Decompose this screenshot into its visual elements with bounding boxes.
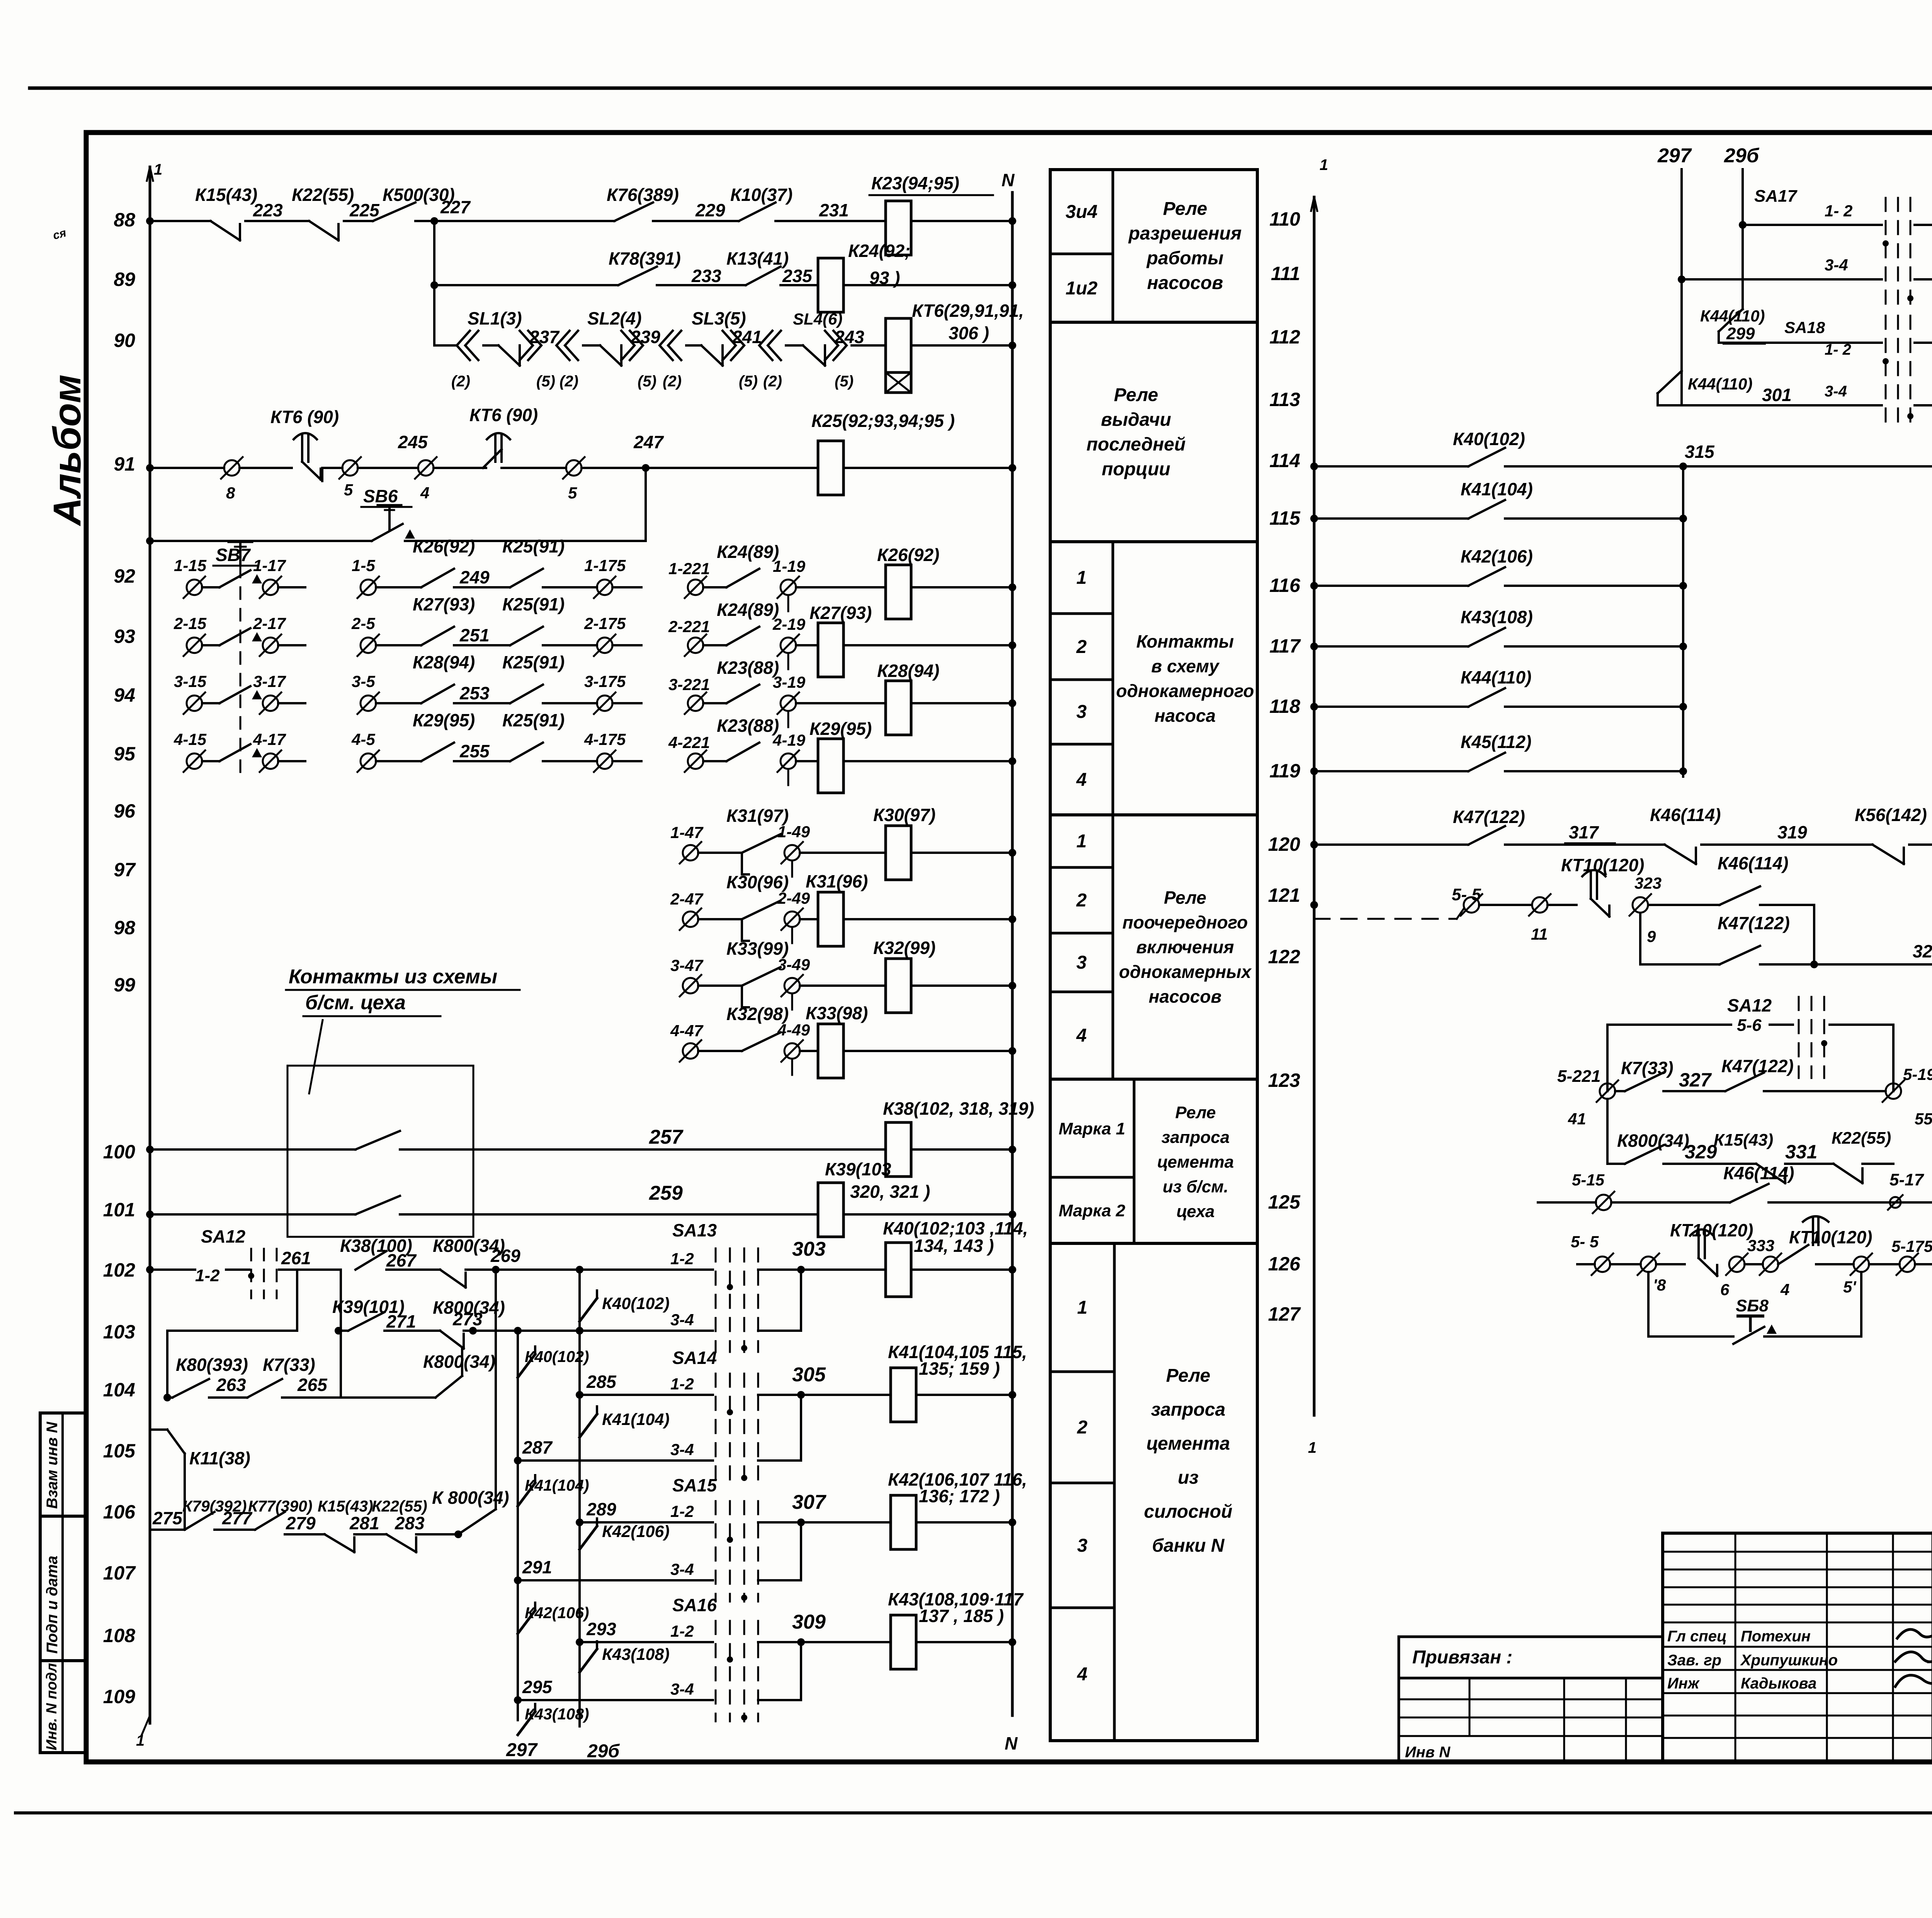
svg-text:последней: последней xyxy=(1087,434,1186,455)
svg-text:Гл спец: Гл спец xyxy=(1667,1628,1727,1645)
node row104 start xyxy=(163,1394,171,1401)
wire К41(104) b xyxy=(1505,517,1683,520)
contact К30(96) xyxy=(742,901,781,919)
svg-text:1: 1 xyxy=(1077,568,1087,588)
terminal 2-47 xyxy=(680,908,701,930)
svg-text:К77(390): К77(390) xyxy=(248,1497,313,1515)
wire row103 b xyxy=(384,1330,440,1332)
node 309 xyxy=(797,1638,805,1646)
wire 5-6 a xyxy=(1607,1024,1731,1026)
switch SA17 dashed xyxy=(1883,198,1913,309)
svg-text:1и2: 1и2 xyxy=(1066,278,1098,299)
svg-text:88: 88 xyxy=(114,209,135,231)
svg-text:К27(93): К27(93) xyxy=(413,594,475,614)
svg-text:К40(102): К40(102) xyxy=(525,1348,589,1365)
wire SА14 1-2 d xyxy=(916,1394,1012,1396)
contact К43(108) on vertical B xyxy=(518,1712,535,1735)
svg-text:КТ10(120): КТ10(120) xyxy=(1561,855,1645,875)
wire row123b d xyxy=(1862,1163,1893,1165)
wire r94 b xyxy=(278,702,305,704)
svg-text:135; 159 ): 135; 159 ) xyxy=(919,1359,1000,1379)
svg-text:3-47: 3-47 xyxy=(670,956,704,974)
contact К25(91) xyxy=(510,685,543,703)
wire row102 a xyxy=(150,1268,195,1271)
svg-text:3-4: 3-4 xyxy=(670,1440,694,1459)
annotation box: Kontakty v shemu odnokamernogo nasosa xyxy=(1050,542,1257,815)
contact К33(99) xyxy=(742,967,781,986)
wire r93 b xyxy=(278,644,305,646)
terminal 5-19 xyxy=(1883,1080,1904,1102)
svg-text:122: 122 xyxy=(1268,946,1301,968)
contact К31(97) tail xyxy=(741,853,743,874)
svg-text:2: 2 xyxy=(1076,637,1087,657)
SB8 loop bottom a xyxy=(1648,1335,1733,1338)
contact К41(104) xyxy=(1468,500,1505,519)
node row101 rail xyxy=(146,1211,154,1218)
SB8 loop right xyxy=(1860,1272,1862,1336)
wire row89 a xyxy=(434,284,618,286)
node row106 end xyxy=(454,1530,462,1538)
terminal 3-15 xyxy=(184,692,205,714)
switch SA12 right dashed xyxy=(1799,997,1827,1078)
svg-text:121: 121 xyxy=(1268,884,1300,906)
svg-text:4: 4 xyxy=(1076,1025,1087,1046)
svg-text:SА15: SА15 xyxy=(672,1475,717,1495)
privyazan table xyxy=(1399,1678,1663,1762)
svg-text:цемента: цемента xyxy=(1146,1433,1230,1454)
svg-text:90: 90 xyxy=(114,330,135,351)
vertical B xyxy=(517,1331,519,1720)
svg-text:из: из xyxy=(1178,1467,1199,1488)
terminal 5b xyxy=(563,457,585,479)
svg-text:118: 118 xyxy=(1269,695,1300,717)
wire r99 c xyxy=(844,1050,1012,1052)
wire row89 d xyxy=(844,284,1012,286)
svg-text:123: 123 xyxy=(1268,1070,1301,1091)
svg-text:4: 4 xyxy=(420,484,429,502)
svg-text:К41(104): К41(104) xyxy=(525,1476,589,1494)
wire row89 b xyxy=(657,284,746,286)
contact K800(34) row103 xyxy=(440,1331,464,1348)
node r93-N xyxy=(1009,641,1016,649)
wire r96 a xyxy=(698,852,742,854)
svg-text:выдачи: выдачи xyxy=(1101,410,1171,430)
svg-text:2-5: 2-5 xyxy=(351,614,375,633)
wire row88 d xyxy=(415,220,614,222)
limit switch end chev xyxy=(825,331,847,360)
signature squiggle 3 xyxy=(1895,1674,1932,1687)
num 317 underline xyxy=(1565,842,1615,844)
svg-text:327: 327 xyxy=(1679,1069,1712,1091)
svg-text:273: 273 xyxy=(452,1309,483,1329)
contact K40(102) r114 xyxy=(1468,448,1505,466)
terminal 2-19 tick xyxy=(787,654,789,669)
terminal 1-175 xyxy=(594,576,616,598)
contact К32(98) tail xyxy=(0,0,0,0)
right rail 1 arrow xyxy=(1311,197,1317,211)
contact К23(88) xyxy=(726,685,759,703)
svg-text:5-17: 5-17 xyxy=(1889,1170,1925,1189)
wire SА14 3-4 b xyxy=(758,1459,801,1462)
svg-text:К23(88): К23(88) xyxy=(717,658,779,678)
svg-text:КТ6 (90): КТ6 (90) xyxy=(270,407,339,427)
contact K44(110) on 296 xyxy=(1719,309,1743,332)
wire row103 c xyxy=(464,1330,713,1332)
svg-text:включения: включения xyxy=(1136,937,1234,957)
terminal 3-19 tick xyxy=(787,712,789,727)
wire r94 a xyxy=(202,702,219,704)
contact К41(104) on vertical A xyxy=(580,1414,597,1437)
wire row90 b xyxy=(852,344,886,347)
wire r92 b xyxy=(278,586,305,588)
terminal 3-175 xyxy=(594,692,616,714)
contact K13(41) xyxy=(746,267,781,285)
wire row102 c xyxy=(279,1268,297,1271)
svg-text:КТ6(29,91,91,: КТ6(29,91,91, xyxy=(912,301,1024,321)
node r99-N xyxy=(1009,1047,1016,1055)
svg-text:3-175: 3-175 xyxy=(584,672,626,690)
node row121 rail xyxy=(1310,901,1318,909)
wire row112 a xyxy=(1719,342,1882,344)
wire row126 c xyxy=(1656,1263,1685,1265)
contact K46(114) r120 xyxy=(1665,845,1696,864)
wire row104 c xyxy=(282,1396,435,1399)
svg-text:303: 303 xyxy=(792,1238,826,1260)
svg-text:Марка 1: Марка 1 xyxy=(1059,1119,1126,1138)
svg-text:К78(391): К78(391) xyxy=(609,248,681,269)
svg-text:3-221: 3-221 xyxy=(668,675,710,694)
wire r95 f xyxy=(612,760,641,762)
node 293 xyxy=(576,1638,583,1646)
svg-text:2-49: 2-49 xyxy=(777,889,810,907)
svg-text:4-47: 4-47 xyxy=(670,1022,704,1040)
svg-text:267: 267 xyxy=(386,1250,417,1270)
node r96-N xyxy=(1009,849,1016,857)
wire row121 dashed xyxy=(1314,918,1457,920)
terminal 3-49 tick xyxy=(791,994,793,1010)
wire SА16 3-4 b xyxy=(758,1699,801,1701)
contact К27(93) selfhold xyxy=(421,627,454,645)
svg-text:КТ10(120): КТ10(120) xyxy=(1789,1227,1872,1247)
svg-text:3: 3 xyxy=(1077,952,1087,973)
wire r93 a xyxy=(202,644,219,646)
svg-text:101: 101 xyxy=(103,1199,135,1221)
svg-text:92: 92 xyxy=(114,565,135,587)
svg-text:323: 323 xyxy=(1634,874,1662,892)
contact K800(34) row102 xyxy=(440,1270,466,1287)
coil K23 label underline xyxy=(869,194,993,196)
contact К43(108) on vertical A xyxy=(580,1649,597,1672)
svg-text:112: 112 xyxy=(1269,326,1300,348)
svg-text:К800(34): К800(34) xyxy=(1617,1131,1689,1151)
node 227 junction xyxy=(430,217,438,225)
node SB6 rail xyxy=(146,537,154,545)
wire row106 d xyxy=(354,1533,386,1535)
contact K38(100) xyxy=(355,1251,386,1270)
node row114 rail xyxy=(1310,462,1318,470)
wire К45(112) b xyxy=(1505,770,1683,772)
signature squiggle 1 xyxy=(1897,1629,1932,1639)
svg-text:К15(43): К15(43) xyxy=(1714,1131,1773,1149)
svg-text:102: 102 xyxy=(103,1259,136,1281)
wire r95 b xyxy=(278,760,305,762)
svg-text:306 ): 306 ) xyxy=(949,323,989,343)
svg-text:229: 229 xyxy=(695,200,725,220)
wire row100 a xyxy=(150,1148,355,1151)
node row120 rail xyxy=(1310,841,1318,848)
svg-text:б/см. цеха: б/см. цеха xyxy=(305,991,406,1014)
svg-text:К40(102): К40(102) xyxy=(602,1294,670,1313)
node row89 start xyxy=(430,281,438,289)
svg-text:3-4: 3-4 xyxy=(670,1560,694,1578)
svg-text:SL4(6): SL4(6) xyxy=(793,310,842,328)
wire row103 a xyxy=(341,1330,348,1332)
stamp box Podp i data xyxy=(40,1516,86,1661)
coil K38 xyxy=(886,1122,911,1177)
svg-text:'8: '8 xyxy=(1653,1276,1666,1294)
coil К33(98) xyxy=(818,1024,844,1078)
svg-text:насосов: насосов xyxy=(1147,273,1223,293)
terminal 333 xyxy=(1760,1253,1781,1275)
svg-text:К25(92;93,94;95 ): К25(92;93,94;95 ) xyxy=(811,411,955,431)
svg-text:К26(92): К26(92) xyxy=(877,545,939,565)
svg-text:97: 97 xyxy=(114,859,136,881)
svg-text:89: 89 xyxy=(114,269,135,290)
num 299 underline xyxy=(1723,343,1765,345)
coil К31(96) xyxy=(818,892,844,946)
svg-text:(2): (2) xyxy=(663,373,682,390)
wire 227 drop xyxy=(433,221,435,345)
svg-text:Взам инв N: Взам инв N xyxy=(44,1421,61,1509)
wire r99 a xyxy=(698,1050,742,1052)
node row88-N xyxy=(1009,217,1016,225)
pushbutton SB8 xyxy=(1749,1316,1752,1331)
wire row111 a xyxy=(1682,278,1882,281)
svg-text:4-17: 4-17 xyxy=(253,730,286,748)
svg-text:1: 1 xyxy=(136,1732,145,1749)
node 269 xyxy=(492,1266,500,1274)
contact К24(89) xyxy=(726,569,759,587)
node row91-N xyxy=(1009,464,1016,472)
wire row121 b xyxy=(1548,904,1577,906)
svg-text:285: 285 xyxy=(586,1372,617,1392)
terminal 1-47 xyxy=(680,842,701,864)
svg-text:(5): (5) xyxy=(739,373,758,390)
node row89-N xyxy=(1009,281,1016,289)
svg-text:поочередного: поочередного xyxy=(1122,912,1248,932)
node 287 xyxy=(514,1457,522,1464)
wire r95 a xyxy=(202,760,219,762)
node r94-N xyxy=(1009,699,1016,707)
vertical 315 xyxy=(1682,466,1684,777)
wire r95 g xyxy=(703,760,726,762)
time contact KT10(120) r126a xyxy=(1690,1229,1717,1276)
svg-text:(5): (5) xyxy=(638,373,656,390)
contact KT10(120) r126b xyxy=(1778,1245,1808,1264)
node row90-N xyxy=(1009,342,1016,349)
contact К25(91) xyxy=(510,569,543,587)
node row100-N xyxy=(1009,1146,1016,1153)
terminal 4-19 xyxy=(777,750,799,772)
svg-text:1-49: 1-49 xyxy=(777,823,810,841)
svg-text:5-15: 5-15 xyxy=(1572,1171,1605,1189)
limit switch SL4(6) left xyxy=(723,331,744,360)
wire SA13 1-2 c xyxy=(801,1268,886,1271)
node rК45(112) rail xyxy=(1310,767,1318,775)
terminal 1-15 xyxy=(184,576,205,598)
svg-text:5: 5 xyxy=(568,484,577,502)
wire row125 c xyxy=(1769,1201,1932,1204)
svg-text:Инв N: Инв N xyxy=(1405,1744,1451,1761)
svg-text:4: 4 xyxy=(1780,1280,1789,1299)
svg-text:4: 4 xyxy=(1076,770,1087,790)
terminal 3-19 xyxy=(777,692,799,714)
svg-text:К15(43): К15(43) xyxy=(318,1497,373,1515)
svg-text:порции: порции xyxy=(1102,459,1170,479)
svg-text:4-49: 4-49 xyxy=(777,1021,810,1039)
svg-text:банки N: банки N xyxy=(1152,1535,1225,1556)
svg-text:запроса: запроса xyxy=(1162,1128,1230,1147)
terminal 3-47 xyxy=(680,975,701,996)
svg-text:3-19: 3-19 xyxy=(773,673,806,691)
svg-text:1-175: 1-175 xyxy=(584,556,626,575)
coil К29(95) xyxy=(818,739,844,793)
svg-text:1-2: 1-2 xyxy=(670,1622,694,1640)
terminal 2-175 xyxy=(594,634,616,656)
contact K46(114) r125 xyxy=(1730,1184,1769,1202)
rail 1 bottom tick xyxy=(141,1716,150,1736)
svg-text:2-47: 2-47 xyxy=(670,890,704,908)
svg-text:41: 41 xyxy=(1568,1110,1586,1128)
svg-text:1-2: 1-2 xyxy=(195,1266,220,1285)
svg-text:95: 95 xyxy=(114,743,136,765)
svg-text:К7(33): К7(33) xyxy=(263,1355,315,1375)
svg-text:2-17: 2-17 xyxy=(253,614,286,633)
terminal 5-15 xyxy=(1593,1192,1614,1213)
left ladder rail N (neutral bus) xyxy=(1011,192,1014,1716)
terminal 4-49 xyxy=(781,1040,803,1062)
svg-text:Потехин: Потехин xyxy=(1741,1628,1811,1645)
svg-text:225: 225 xyxy=(349,200,380,220)
wire row125 b xyxy=(1611,1201,1730,1204)
svg-text:(5): (5) xyxy=(835,373,854,390)
svg-text:К28(94): К28(94) xyxy=(877,661,939,681)
terminal 3-5 xyxy=(357,692,379,714)
svg-text:4-5: 4-5 xyxy=(351,730,375,748)
wire row126 f xyxy=(1869,1263,1900,1265)
contact K39(101) xyxy=(348,1312,384,1331)
contact K47(122) r122 xyxy=(1719,946,1760,964)
wire r92 e xyxy=(543,586,597,588)
wire row126 g xyxy=(1915,1263,1932,1265)
svg-text:104: 104 xyxy=(103,1379,135,1401)
svg-text:из б/см.: из б/см. xyxy=(1163,1177,1228,1196)
corner SA13 xyxy=(800,1270,802,1331)
svg-text:К23(94;95): К23(94;95) xyxy=(871,173,959,193)
node vertA top xyxy=(576,1266,583,1274)
svg-text:насосов: насосов xyxy=(1149,986,1222,1007)
svg-text:К29(95): К29(95) xyxy=(413,710,475,730)
svg-text:К43(108): К43(108) xyxy=(602,1645,670,1664)
svg-text:320, 321 ): 320, 321 ) xyxy=(850,1182,930,1202)
svg-text:К32(99): К32(99) xyxy=(873,938,935,958)
svg-text:К42(106): К42(106) xyxy=(602,1522,670,1541)
svg-text:SL3(5): SL3(5) xyxy=(692,308,746,328)
terminal 3-49 xyxy=(781,975,803,996)
svg-text:2-221: 2-221 xyxy=(668,617,710,636)
svg-text:275: 275 xyxy=(152,1508,183,1528)
svg-text:231: 231 xyxy=(819,200,849,220)
svg-text:259: 259 xyxy=(649,1182,683,1204)
svg-text:К46(114): К46(114) xyxy=(1650,805,1721,825)
terminal 1-49 xyxy=(781,842,803,864)
svg-text:К22(55): К22(55) xyxy=(1832,1129,1891,1148)
outer border bottom xyxy=(15,1811,1932,1814)
wire SА15 1-2 d xyxy=(916,1521,1012,1524)
svg-text:однокамерного: однокамерного xyxy=(1116,681,1254,701)
contact К45(112) xyxy=(1468,753,1505,771)
node К44(110) end xyxy=(1679,703,1687,711)
time contact KT10(120) r121 xyxy=(1582,870,1609,916)
svg-text:105: 105 xyxy=(103,1440,136,1462)
terminal r121 a xyxy=(1461,894,1482,916)
svg-text:К41(104): К41(104) xyxy=(602,1410,670,1429)
contact K7(33) r123 xyxy=(1625,1073,1663,1091)
wire r94 i xyxy=(911,702,1012,704)
svg-text:(5): (5) xyxy=(536,373,555,390)
wire row110 b xyxy=(1915,224,1932,226)
svg-text:331: 331 xyxy=(1785,1141,1817,1163)
wire SА14 1-2 a xyxy=(580,1394,713,1396)
wire К42(106) a xyxy=(1314,585,1468,587)
svg-text:SL1(3): SL1(3) xyxy=(468,308,522,328)
svg-text:1-19: 1-19 xyxy=(773,557,806,575)
wire r93 f xyxy=(612,644,641,646)
wire SА16 3-4 a xyxy=(518,1699,713,1701)
wire SB6 branch vertical xyxy=(645,468,647,541)
svg-text:283: 283 xyxy=(395,1513,425,1533)
svg-text:126: 126 xyxy=(1268,1253,1301,1275)
svg-text:2-19: 2-19 xyxy=(772,615,806,633)
svg-text:3-5: 3-5 xyxy=(352,672,375,690)
contact SB7 pole 3 xyxy=(219,686,250,703)
contact К23(88) xyxy=(726,743,759,761)
label SB7 underline xyxy=(213,565,258,567)
svg-text:SА17: SА17 xyxy=(1754,187,1798,206)
contact K76(389) xyxy=(614,202,653,221)
corner SА14 xyxy=(800,1395,802,1461)
svg-text:8: 8 xyxy=(226,484,235,502)
terminal 3-17 xyxy=(260,692,281,714)
svg-text:К29(95): К29(95) xyxy=(810,719,872,739)
wire row101 c xyxy=(844,1213,1012,1216)
vertical A xyxy=(578,1270,581,1726)
svg-text:114: 114 xyxy=(1269,450,1300,471)
terminal 1-49 tick xyxy=(791,861,793,877)
corner 5-6 left xyxy=(1606,1025,1609,1091)
svg-text:КТ6 (90): КТ6 (90) xyxy=(469,405,538,425)
terminal 5' r126 xyxy=(1850,1253,1872,1275)
node row122 mid xyxy=(1810,961,1818,968)
terminal 323 xyxy=(1629,894,1651,916)
title block signature table xyxy=(1663,1533,1932,1762)
terminal 6 xyxy=(1726,1253,1748,1275)
contact K47(122) r120 xyxy=(1468,826,1505,845)
contact K22(55) row106 xyxy=(386,1534,416,1552)
svg-text:К31(96): К31(96) xyxy=(806,871,868,891)
svg-text:Зав. гр: Зав. гр xyxy=(1667,1652,1721,1669)
svg-text:N: N xyxy=(1005,1733,1018,1753)
